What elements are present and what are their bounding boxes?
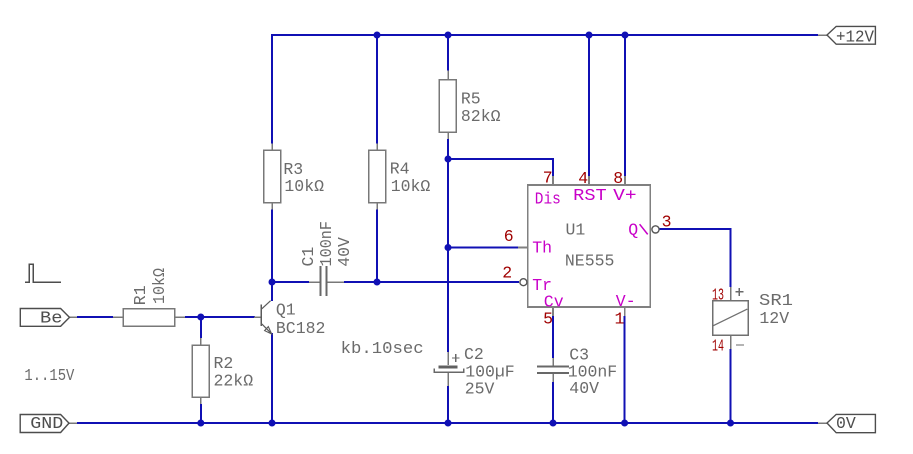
node pin6 junction [445, 244, 452, 251]
svg-text:4: 4 [578, 169, 588, 188]
wire pin8 [624, 35, 626, 176]
svg-text:BC182: BC182 [276, 319, 326, 338]
svg-text:1..15V: 1..15V [24, 366, 74, 385]
wire R5/C2 column [447, 35, 449, 423]
tag GND [20, 414, 77, 433]
node bottom rail C3 [550, 420, 557, 427]
svg-text:14: 14 [712, 337, 724, 356]
wire pin7 [448, 159, 553, 176]
resistor R1 [113, 268, 185, 326]
node bottom rail relay [727, 420, 734, 427]
node R3 collector junction [269, 279, 276, 286]
svg-text:kb.10sec: kb.10sec [341, 339, 424, 358]
svg-text:5: 5 [543, 310, 553, 329]
node bottom rail pin1 [621, 420, 628, 427]
svg-text:13: 13 [712, 286, 724, 305]
wire bottom rail 0V [77, 422, 818, 424]
capacitor C2 electrolytic [434, 345, 515, 399]
svg-text:25V: 25V [465, 380, 495, 399]
tag 0V [818, 414, 875, 433]
capacitor C1 [299, 221, 354, 296]
node top rail R4 junction [374, 32, 381, 39]
wire R3 column [271, 34, 273, 283]
svg-text:10kΩ: 10kΩ [284, 177, 324, 196]
node top rail pin4 junction [586, 32, 593, 39]
svg-text:R4: R4 [390, 160, 410, 179]
svg-text:82kΩ: 82kΩ [461, 107, 501, 126]
svg-text:C2: C2 [464, 345, 484, 364]
svg-text:40V: 40V [335, 237, 354, 267]
pin 8 stub [624, 176, 626, 185]
svg-text:12V: 12V [759, 309, 789, 328]
pin 7 stub [552, 176, 554, 185]
svg-text:V+: V+ [613, 186, 637, 205]
node bottom rail R2 [197, 420, 204, 427]
svg-text:Q1: Q1 [276, 301, 296, 320]
svg-text:2: 2 [502, 264, 512, 283]
svg-text:Be: Be [40, 309, 63, 328]
capacitor C3 [537, 346, 617, 399]
resistor R5 [439, 71, 501, 140]
svg-text:+12V: +12V [836, 27, 874, 46]
svg-text:40V: 40V [569, 379, 599, 398]
node top rail R5 junction [445, 32, 452, 39]
svg-text:0V: 0V [836, 414, 856, 433]
svg-text:1: 1 [615, 310, 625, 329]
resistor R4 [369, 144, 431, 210]
tag Be [20, 309, 77, 328]
node bottom rail C2 [445, 420, 452, 427]
node bottom rail emitter [269, 420, 276, 427]
wire R4 column [376, 35, 378, 282]
svg-text:6: 6 [504, 227, 514, 246]
svg-text:7: 7 [543, 169, 553, 188]
svg-text:V-: V- [616, 292, 636, 311]
pin 3 bubble [652, 226, 659, 233]
svg-text:C1: C1 [299, 247, 318, 267]
wire pin6 Th [448, 247, 518, 249]
node R5 bottom junction [445, 156, 452, 163]
svg-text:Q: Q [628, 221, 638, 240]
svg-text:Dis: Dis [535, 190, 561, 209]
svg-text:U1: U1 [566, 221, 586, 240]
svg-text:Th: Th [532, 239, 552, 258]
svg-text:R1: R1 [131, 285, 150, 305]
svg-text:3: 3 [662, 213, 672, 232]
resistor R2 [192, 338, 253, 404]
pin 5 stub [552, 307, 554, 316]
node R1 R2 base junction [197, 314, 204, 321]
wire relay to 0V rail [730, 349, 732, 423]
svg-text:100nF: 100nF [317, 221, 336, 267]
wire pin4 [588, 35, 590, 176]
svg-text:22kΩ: 22kΩ [214, 372, 254, 391]
wire pin1 V- to 0V rail [624, 316, 626, 423]
wire Q1 emitter to rail [271, 333, 273, 423]
svg-text:10kΩ: 10kΩ [150, 268, 169, 304]
op-amp U1 NE555 box [502, 169, 671, 329]
wire top rail +12V [272, 34, 818, 36]
pin 1 stub [624, 307, 626, 316]
wire Be input row [77, 316, 255, 318]
svg-text:10kΩ: 10kΩ [391, 177, 431, 196]
svg-text:NE555: NE555 [565, 252, 615, 271]
svg-text:SR1: SR1 [759, 291, 793, 310]
pin 4 stub [588, 176, 590, 185]
resistor R3 [264, 144, 325, 210]
svg-text:R2: R2 [214, 354, 234, 373]
wire pin3 Q to relay [659, 229, 731, 287]
node top rail pin8 junction [622, 32, 629, 39]
wire R2 column [200, 317, 202, 423]
svg-text:GND: GND [30, 414, 63, 433]
svg-text:RST: RST [573, 186, 607, 205]
pulse symbol [25, 264, 61, 282]
pin 6 stub [518, 247, 528, 249]
node R4 bottom junction [374, 279, 381, 286]
transistor Q1 [254, 301, 325, 339]
tag +12V [818, 26, 875, 46]
pin 2 bubble [520, 279, 527, 286]
wire pin5 Cv to C3 [552, 316, 554, 423]
svg-text:8: 8 [613, 169, 623, 188]
wire Q1 collector [271, 282, 273, 301]
svg-text:R5: R5 [461, 90, 481, 109]
relay SR1 [712, 286, 793, 356]
wire pin2 Tr row [272, 281, 519, 283]
